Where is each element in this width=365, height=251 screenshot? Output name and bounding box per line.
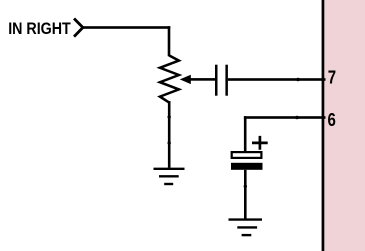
wire pin 6 vertical drop to C2 [244, 116, 247, 152]
ground GND2 [229, 220, 263, 236]
wire wiper to C1 [190, 78, 216, 81]
IC U1 body [322, 0, 365, 251]
junction dot on R1 ground wire lower [168, 141, 171, 144]
svg-text:IN RIGHT: IN RIGHT [8, 20, 71, 38]
capacitor C1 left plate [215, 65, 218, 96]
junction dot on pin 6 wire [295, 116, 299, 120]
wire input vertical drop [168, 26, 171, 56]
wire C2 to ground [244, 170, 247, 219]
port IN RIGHT chevron [75, 20, 83, 36]
capacitor C1 right plate [225, 65, 228, 96]
wire R1 to ground [168, 101, 171, 168]
capacitor C2 positive top plate [232, 152, 262, 158]
junction dot on R1 ground wire upper [168, 115, 171, 118]
potentiometer R1 wiper arrowhead [180, 75, 191, 84]
wire input horizontal [83, 26, 170, 29]
svg-text:6: 6 [328, 109, 336, 130]
junction dot on pin 7 wire [296, 78, 300, 82]
plus sign for C2 [252, 136, 268, 150]
potentiometer R1 zigzag [160, 55, 179, 102]
capacitor C2 negative bottom plate [231, 163, 263, 170]
wire C1 to pin 7 [228, 78, 326, 81]
ground GND1 [154, 169, 185, 184]
svg-text:7: 7 [328, 67, 336, 88]
junction dot on C2 ground wire [244, 185, 247, 188]
IC U1 left edge [322, 0, 325, 251]
wire pin 6 horizontal [244, 116, 326, 119]
